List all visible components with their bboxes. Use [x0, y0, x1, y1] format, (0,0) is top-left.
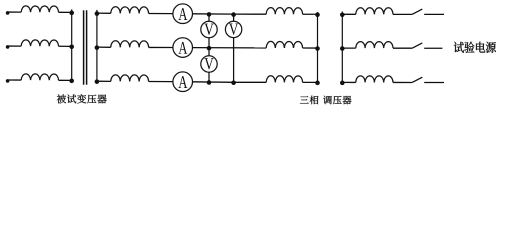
junction source bus row2 [340, 46, 345, 51]
transformer core T1 (left bar) [83, 10, 85, 84]
inductor primary winding L1c (被试变压器) [21, 74, 58, 80]
switch S2 blade (open knife switch) [412, 43, 422, 48]
inductor regulator winding L3a (三相调压器) [266, 8, 302, 15]
wire terminal-C to winding [8, 79, 22, 81]
inductor secondary winding L2a [111, 7, 149, 14]
wire row1 to voltmeter PV3 [233, 14, 235, 21]
junction secondary bus row2 [95, 45, 100, 50]
junction primary bus row2 [69, 45, 74, 50]
wire row3 taps to regulator winding [234, 81, 267, 83]
wire winding L3c to star bus [303, 81, 318, 83]
wire primary bus (vertical) [71, 9, 73, 80]
wire voltmeter PV3 down to row3 (crosses row2) [233, 38, 235, 83]
inductor source winding L4c [356, 76, 393, 83]
switch S3 blade (open knife switch) [412, 77, 422, 82]
wire secondary bus to winding L2c [97, 80, 111, 82]
wire ammeter PA1 to node V-taps (row1) [193, 13, 234, 15]
wire source bus to winding L4b [342, 47, 356, 49]
wire voltmeter PV1 to row2 [208, 38, 210, 48]
label 试验电源 (test power source) [454, 42, 464, 53]
wire source bus (vertical) [341, 12, 343, 83]
wire winding L3a to star bus [303, 13, 318, 15]
inductor primary winding L1b (被试变压器) [21, 40, 58, 46]
ammeter PA1 [173, 4, 193, 24]
voltmeter PV2 (U23) [201, 56, 217, 72]
inductor primary winding L1a (被试变压器) [21, 6, 58, 12]
wire regulator star bus (vertical) [317, 12, 319, 82]
voltmeter PV1 (U12) [201, 21, 217, 37]
wire switch S3 to source terminal [424, 82, 444, 84]
wire ammeter PA3 to node taps (row3) [193, 81, 234, 83]
junction row1 tap U12 [207, 12, 212, 17]
ammeter PA3 [173, 72, 193, 92]
junction source bus row1 [340, 12, 345, 17]
label 被试变压器 (transformer under test) [57, 94, 66, 103]
wire ammeter PA2 to regulator (row2) [193, 47, 267, 49]
wire terminal-B to winding [8, 45, 22, 47]
junction star bus row2 [315, 46, 320, 51]
wire winding L1a to primary bus [59, 11, 72, 13]
wire source bus to winding L4a [342, 13, 356, 15]
node terminal phase B (left) [6, 45, 10, 49]
junction source bus row3 [340, 81, 345, 86]
wire secondary bus to winding L2b [97, 46, 111, 48]
junction star bus row3 [315, 81, 320, 86]
junction row3 tap U13 [231, 80, 236, 85]
inductor regulator winding L3c (三相调压器) [266, 76, 302, 83]
wire winding to ammeter PA2 [149, 46, 173, 48]
transformer core T1 (right bar) [86, 10, 88, 84]
wire switch S1 to source terminal [424, 13, 444, 15]
junction row3 tap U23 [207, 80, 212, 85]
switch S1 blade (open knife switch) [412, 9, 422, 14]
junction star bus row1 [315, 12, 320, 17]
wire secondary bus to winding L2a [97, 12, 111, 14]
wire winding L1c to primary bus [59, 79, 72, 81]
junction primary bus row1 [69, 11, 74, 16]
wire winding to ammeter PA3 [149, 81, 173, 83]
wire source bus to winding L4c [342, 81, 356, 83]
inductor secondary winding L2b [111, 41, 149, 48]
wire secondary bus (vertical) [96, 10, 98, 81]
junction primary bus row3 [69, 79, 74, 84]
node terminal phase C (left) [6, 79, 10, 83]
wire terminal-A to winding [8, 11, 22, 13]
junction secondary bus row1 [95, 11, 100, 16]
inductor source winding L4b [356, 42, 393, 49]
wire row1 taps to regulator winding [234, 13, 267, 15]
wire switch S2 to source terminal [424, 47, 442, 49]
voltmeter PV3 (U13) [225, 21, 241, 37]
junction row2 tap U12/U23 [207, 46, 212, 51]
wire voltmeter PV2 to row3 [208, 72, 210, 82]
wire winding L1b to primary bus [59, 45, 72, 47]
junction secondary bus row3 [95, 79, 100, 84]
label 三相调压器 (three-phase voltage regulator) [300, 96, 309, 103]
wire winding L4c to switch S3 [393, 81, 412, 83]
node terminal phase A (left) [6, 11, 10, 15]
wire winding L3b to star bus [303, 47, 318, 49]
inductor source winding L4a [356, 8, 393, 15]
wire winding to ammeter PA1 [149, 13, 173, 15]
wire row1 to voltmeter PV1 [208, 14, 210, 21]
wire winding L4b to switch S2 [393, 47, 412, 49]
junction row1 tap U13 [231, 12, 236, 17]
wire winding L4a to switch S1 [393, 13, 412, 15]
wire row2 to voltmeter PV2 [208, 48, 210, 56]
ammeter PA2 [173, 38, 193, 58]
inductor regulator winding L3b (三相调压器) [266, 41, 302, 48]
inductor secondary winding L2c [111, 75, 149, 82]
